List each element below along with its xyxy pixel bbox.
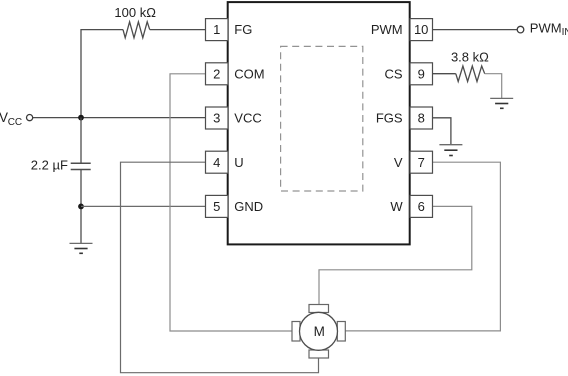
node junction dot GND rail bbox=[78, 204, 84, 210]
ground symbol left bbox=[70, 243, 93, 253]
svg-text:PWM: PWM bbox=[371, 22, 403, 37]
wire pin8 FGS to ground bbox=[432, 118, 451, 145]
pin box 3 bbox=[206, 107, 229, 129]
svg-text:VCC: VCC bbox=[234, 111, 261, 126]
svg-text:M: M bbox=[314, 324, 325, 339]
resistor R2 3.8 kOhm zigzag bbox=[456, 66, 485, 82]
pin box 9 bbox=[410, 63, 433, 85]
node junction dot VCC rail upper bbox=[78, 115, 84, 121]
terminal PWM_IN circle bbox=[517, 26, 524, 33]
wire VCC rail down to capacitor bbox=[80, 118, 82, 164]
capacitor C1 2.2uF plates bbox=[71, 163, 91, 169]
svg-text:5: 5 bbox=[213, 199, 220, 214]
ground symbol right lower bbox=[439, 145, 462, 156]
wire pin4 U down and to motor bottom bbox=[121, 162, 319, 373]
motor M1 body circle bbox=[300, 312, 338, 350]
wire VCC terminal to pin3 bbox=[33, 117, 206, 119]
svg-text:9: 9 bbox=[418, 66, 425, 81]
svg-text:V: V bbox=[394, 155, 403, 170]
ground symbol right upper bbox=[490, 98, 513, 108]
svg-text:4: 4 bbox=[213, 155, 220, 170]
pin box 6 bbox=[410, 195, 433, 217]
IC body U1 bbox=[228, 2, 410, 244]
svg-text:FGS: FGS bbox=[376, 111, 403, 126]
pin box 2 bbox=[206, 63, 229, 85]
svg-text:COM: COM bbox=[234, 66, 264, 81]
svg-text:100 kΩ: 100 kΩ bbox=[114, 5, 156, 20]
pin box 5 bbox=[206, 195, 229, 217]
wire pin5 GND to rail bbox=[81, 205, 206, 207]
svg-text:W: W bbox=[390, 199, 403, 214]
terminal VCC circle bbox=[27, 115, 33, 121]
wire resistor R2 to ground bbox=[485, 74, 502, 99]
pin box 7 bbox=[410, 151, 433, 173]
svg-text:1: 1 bbox=[213, 22, 220, 37]
svg-text:FG: FG bbox=[234, 22, 252, 37]
svg-text:3: 3 bbox=[213, 111, 220, 126]
svg-text:3.8 kΩ: 3.8 kΩ bbox=[451, 49, 489, 64]
wire pin10 PWM to terminal bbox=[432, 29, 517, 31]
wire capacitor to ground bbox=[80, 170, 82, 244]
pin box 4 bbox=[206, 151, 229, 173]
svg-text:U: U bbox=[234, 155, 243, 170]
svg-text:PWM: PWM bbox=[530, 21, 562, 36]
svg-text:2: 2 bbox=[213, 66, 220, 81]
svg-text:IN: IN bbox=[562, 27, 568, 38]
wire pin2 COM to motor left terminal bbox=[170, 74, 292, 331]
svg-text:CS: CS bbox=[385, 66, 403, 81]
dashed internal block bbox=[281, 46, 363, 191]
wire pin1 FG to resistor and down to VCC rail bbox=[81, 30, 206, 118]
pin box 8 bbox=[410, 107, 433, 129]
svg-text:8: 8 bbox=[418, 111, 425, 126]
wire pin7 V to motor right terminal bbox=[345, 162, 500, 331]
pin box 1 bbox=[206, 19, 229, 41]
motor M1 terminals bbox=[292, 305, 345, 359]
svg-text:6: 6 bbox=[418, 199, 425, 214]
svg-text:2.2 µF: 2.2 µF bbox=[31, 157, 68, 172]
wire pin6 W to motor top terminal bbox=[319, 206, 472, 304]
resistor R1 100 kOhm zigzag bbox=[123, 22, 150, 38]
svg-text:7: 7 bbox=[418, 155, 425, 170]
svg-text:10: 10 bbox=[414, 22, 428, 37]
pin box 10 bbox=[410, 19, 433, 41]
wire pin9 CS to resistor bbox=[432, 73, 456, 75]
svg-text:CC: CC bbox=[8, 117, 22, 128]
svg-text:GND: GND bbox=[234, 199, 263, 214]
